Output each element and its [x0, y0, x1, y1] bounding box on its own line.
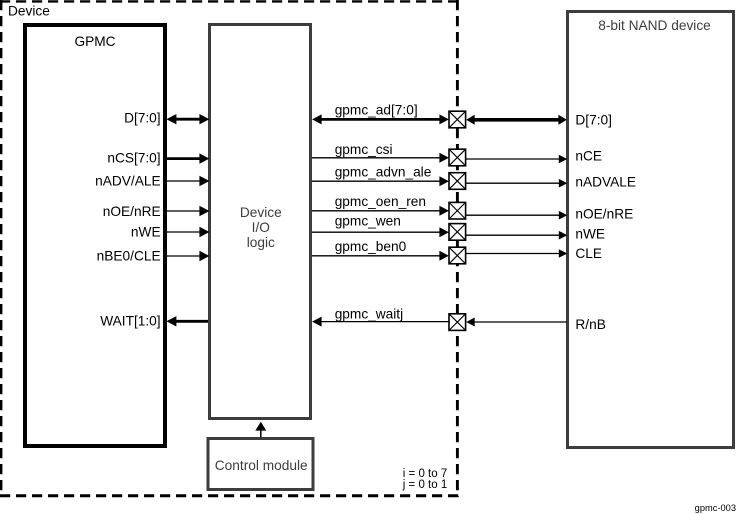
- svg-text:WAIT[1:0]: WAIT[1:0]: [100, 314, 160, 329]
- svg-text:nBE0/CLE: nBE0/CLE: [97, 248, 161, 263]
- svg-text:D[7:0]: D[7:0]: [124, 110, 161, 125]
- svg-text:nADV/ALE: nADV/ALE: [95, 174, 160, 189]
- svg-text:GPMC: GPMC: [74, 34, 115, 49]
- svg-text:8-bit NAND device: 8-bit NAND device: [598, 18, 711, 33]
- svg-text:j = 0 to 1: j = 0 to 1: [402, 479, 447, 491]
- svg-text:nOE/nRE: nOE/nRE: [575, 206, 633, 221]
- svg-text:Device: Device: [8, 4, 50, 19]
- wire nOE/nRE GPMC to I/O: [167, 206, 209, 216]
- Device I/O logic label: [240, 205, 282, 250]
- IO pad gpmc_oen_ren: [449, 202, 466, 219]
- svg-text:Device: Device: [240, 205, 282, 220]
- wire gpmc_wen I/O to pad: [312, 227, 449, 237]
- wire nWE pad to NAND: [466, 231, 568, 240]
- wire nWE GPMC to I/O: [167, 227, 209, 237]
- Device I/O logic block: [210, 25, 311, 419]
- wire gpmc_advn_ale I/O to pad: [312, 176, 449, 186]
- svg-text:gpmc_advn_ale: gpmc_advn_ale: [335, 165, 432, 180]
- svg-text:nCE: nCE: [575, 149, 602, 164]
- wire gpmc_ad I/O to pad (bidirectional thick): [312, 114, 449, 124]
- note i/j ranges: [402, 468, 447, 491]
- svg-text:gpmc_csi: gpmc_csi: [335, 142, 393, 157]
- IO pad gpmc_csi: [449, 149, 466, 166]
- GPMC block: [25, 25, 165, 446]
- svg-text:nWE: nWE: [131, 225, 161, 240]
- wire gpmc_csi I/O to pad: [312, 153, 449, 163]
- svg-text:D[7:0]: D[7:0]: [575, 112, 612, 127]
- IO pad gpmc_ben0: [449, 247, 466, 264]
- wire nCS[7:0] GPMC to I/O (thick, right arrow): [167, 153, 209, 163]
- wire D[7:0] pad to NAND (bidirectional thick): [466, 115, 567, 125]
- svg-text:logic: logic: [247, 235, 275, 250]
- svg-text:gpmc_wen: gpmc_wen: [335, 214, 401, 229]
- IO pad gpmc_advn_ale: [449, 173, 466, 190]
- Control module block: [208, 439, 313, 490]
- wire WAIT[1:0] I/O to GPMC (thick, left arrow): [166, 316, 208, 326]
- wire nADVALE pad to NAND: [466, 179, 568, 188]
- wire CLE pad to NAND: [466, 249, 568, 258]
- wire gpmc_waitj pad to I/O (left arrow): [312, 317, 449, 327]
- svg-text:CLE: CLE: [575, 246, 602, 261]
- svg-text:gpmc-003: gpmc-003: [695, 503, 736, 513]
- svg-text:gpmc_ad[7:0]: gpmc_ad[7:0]: [335, 102, 418, 117]
- wire nADV/ALE GPMC to I/O: [167, 176, 209, 186]
- wire nBE0/CLE GPMC to I/O: [167, 251, 209, 261]
- svg-text:gpmc_waitj: gpmc_waitj: [335, 307, 403, 322]
- svg-text:nWE: nWE: [575, 226, 605, 241]
- device boundary (dashed): [0, 0, 459, 497]
- IO pad gpmc_ad: [449, 111, 466, 128]
- wire nCE pad to NAND: [466, 155, 568, 164]
- wire nOE/nRE pad to NAND: [466, 211, 568, 220]
- svg-text:nCS[7:0]: nCS[7:0]: [107, 150, 160, 165]
- svg-text:nADVALE: nADVALE: [575, 175, 636, 190]
- svg-text:R/nB: R/nB: [575, 317, 605, 332]
- svg-text:gpmc_oen_ren: gpmc_oen_ren: [335, 194, 426, 209]
- svg-text:gpmc_ben0: gpmc_ben0: [335, 239, 407, 254]
- svg-text:I/O: I/O: [252, 220, 270, 235]
- IO pad gpmc_wen: [449, 224, 466, 241]
- wire gpmc_ben0 I/O to pad: [312, 251, 449, 261]
- IO pad gpmc_waitj: [449, 314, 466, 331]
- arrow Control module to I/O logic: [255, 422, 266, 438]
- svg-text:nOE/nRE: nOE/nRE: [103, 204, 161, 219]
- wire R/nB NAND to pad (left arrow): [466, 318, 567, 327]
- wire gpmc_oen_ren I/O to pad: [312, 206, 449, 216]
- wire D[7:0] GPMC to I/O (bidirectional thick): [166, 114, 209, 124]
- 8-bit NAND device block: [568, 12, 734, 448]
- svg-text:Control module: Control module: [215, 458, 308, 473]
